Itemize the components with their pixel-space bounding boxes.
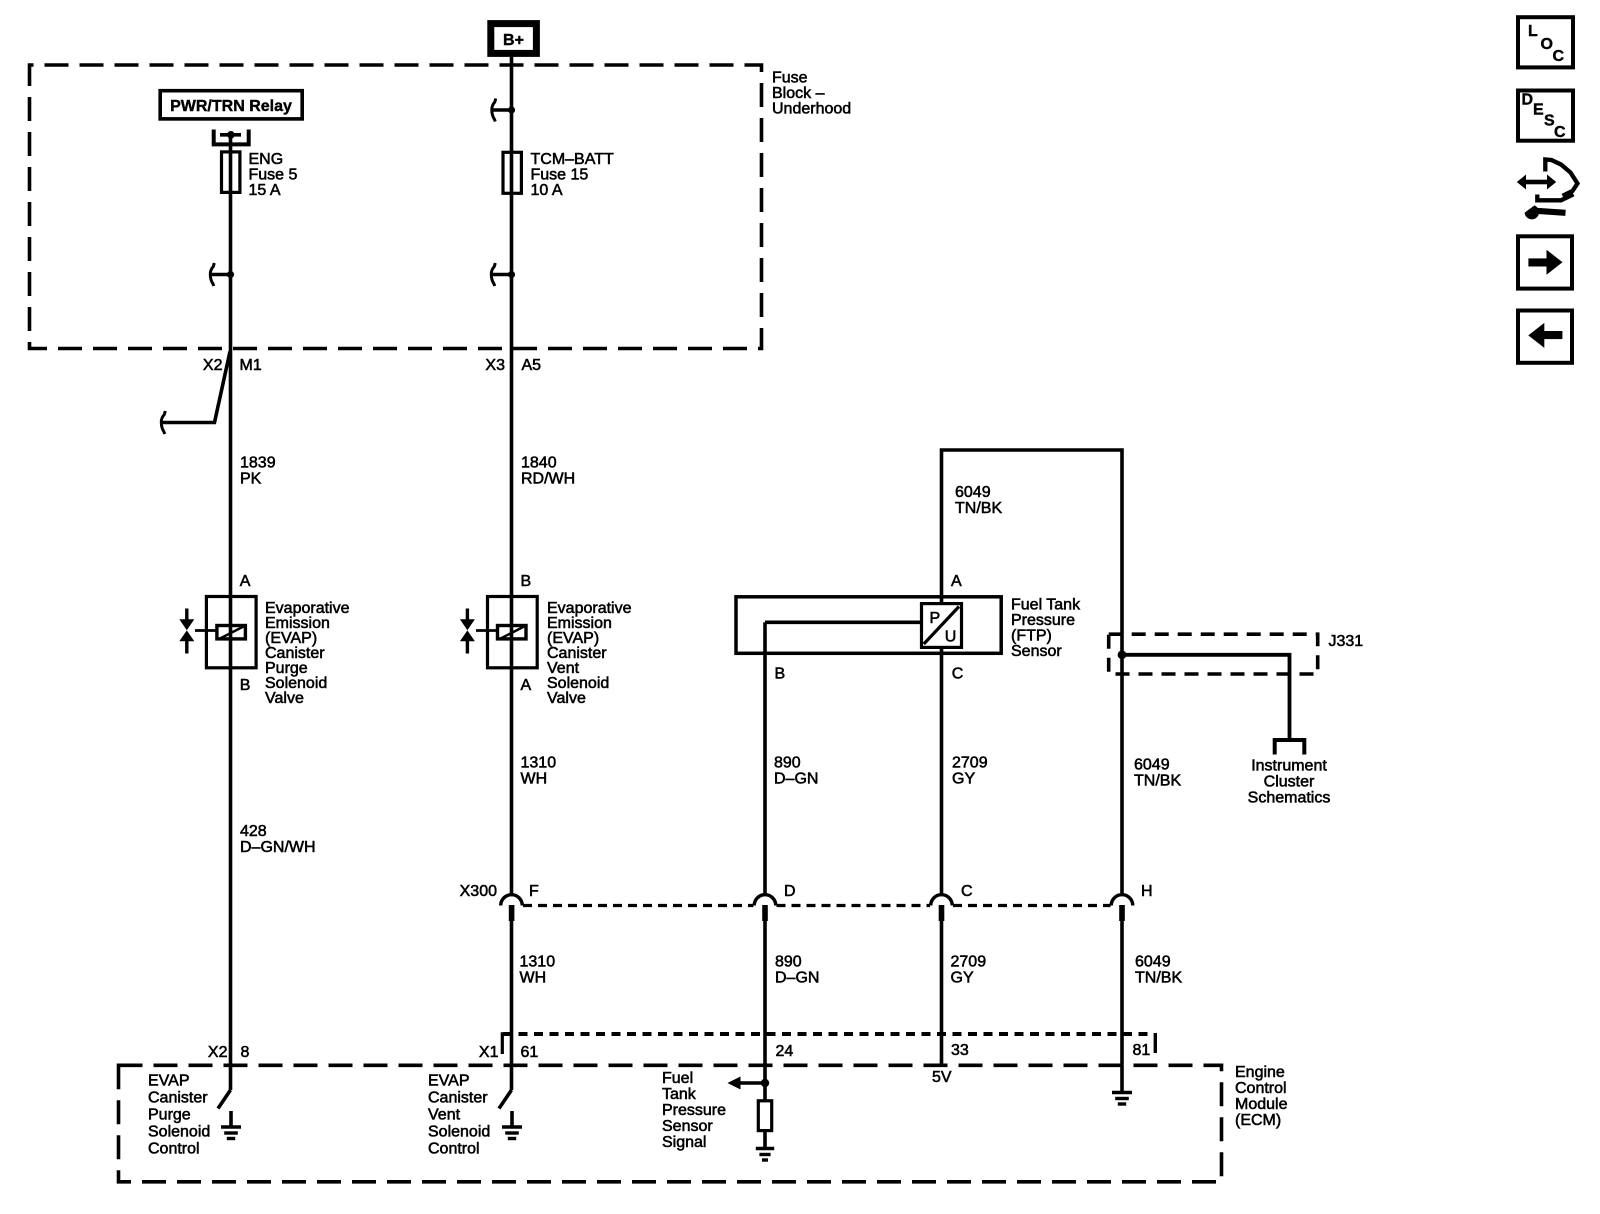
svg-text:TN/BK: TN/BK [1134,773,1181,790]
ECM purge driver switch [218,1090,231,1109]
X300 terminal D [754,883,795,921]
wire label 6049 TN/BK top [955,484,1002,517]
ground at pin 24 resistor [756,1149,774,1161]
FTP sensor label text [1011,597,1081,661]
inline connector X300 dashed line [523,904,1111,907]
svg-text:2709: 2709 [952,755,988,772]
purge solenoid label text [265,600,350,707]
ground at vent driver [502,1111,522,1139]
svg-text:X2: X2 [203,357,223,374]
purge solenoid valve arrow symbol [179,609,194,654]
svg-text:C: C [952,666,964,683]
svg-text:X300: X300 [460,883,497,900]
svg-text:Fuse: Fuse [772,70,808,87]
svg-text:TCM–BATT: TCM–BATT [531,151,614,168]
svg-text:RD/WH: RD/WH [521,471,575,488]
svg-text:EVAP: EVAP [148,1073,190,1090]
fuel tank pressure sensor signal label [662,1070,726,1151]
instrument cluster label [1248,758,1331,807]
wire: X300 H down to ECM 81 [1120,921,1124,1093]
svg-text:X3: X3 [485,357,505,374]
svg-text:6049: 6049 [1135,954,1171,971]
svg-text:PWR/TRN Relay: PWR/TRN Relay [170,98,292,115]
X1 pin labels [479,1042,1150,1061]
svg-text:D–GN/WH: D–GN/WH [240,839,316,856]
svg-text:E: E [1533,102,1544,119]
svg-text:Instrument: Instrument [1251,758,1327,775]
svg-text:PK: PK [240,471,262,488]
wire label 428 D-GN/WH [240,823,316,856]
ECM connector X1 dotted line [502,1033,1155,1054]
wire: X300 F down to ECM X1 61 [510,921,514,1091]
LOC navigation icon [1518,17,1573,67]
X300 terminal H [1111,883,1152,921]
ECM label [1235,1064,1288,1129]
wire label 2709 GY lower [951,954,987,987]
wrench diagnostic icon [1517,160,1578,220]
svg-text:Module: Module [1235,1096,1288,1113]
wire label 1310 WH upper [521,755,557,788]
wire: FTP A up and across to 6049 [942,450,1123,896]
svg-text:428: 428 [240,823,267,840]
splice package J331 dashed box [1109,633,1364,674]
svg-text:(FTP): (FTP) [1011,628,1052,645]
svg-text:P: P [930,610,941,627]
svg-text:1839: 1839 [240,455,276,472]
svg-text:B+: B+ [503,32,524,49]
svg-text:Valve: Valve [547,690,586,707]
svg-text:L: L [1528,23,1538,40]
vent solenoid label text [547,600,632,707]
svg-text:C: C [1553,48,1565,65]
svg-text:1840: 1840 [521,455,557,472]
svg-text:Cluster: Cluster [1264,774,1315,791]
fuel tank pressure FTP sensor [736,597,1001,655]
svg-text:Solenoid: Solenoid [148,1124,210,1141]
svg-text:GY: GY [952,771,975,788]
svg-text:EVAP: EVAP [428,1073,470,1090]
svg-text:Underhood: Underhood [772,101,851,118]
wire: FTP B down to X300 D [763,655,767,896]
engine control module ECM dashed box [119,1065,1222,1182]
wire branch jog to other circuit [161,352,230,435]
svg-text:890: 890 [775,954,802,971]
X2 pin 8 labels [208,1044,250,1061]
wire: FTP C down to X300 C [940,648,944,896]
wire: relay to ENG fuse [229,135,233,1090]
X300 terminal F [501,883,539,921]
wire label 6049 TN/BK lower [1135,954,1182,987]
svg-text:C: C [961,883,973,900]
svg-text:1310: 1310 [520,954,556,971]
node X3 A5 labels [485,357,541,374]
wire: X300 D down to ECM 24 [763,921,767,1101]
wire: resistor to ground [763,1131,767,1149]
svg-text:24: 24 [776,1043,794,1060]
svg-text:10 A: 10 A [531,182,563,199]
connector clip on ENG fuse output [210,263,234,286]
X300 terminal C [931,883,973,921]
svg-text:D: D [784,883,796,900]
fuse block label [772,70,851,118]
wire label 1839 PK [240,455,276,488]
svg-text:Fuel Tank: Fuel Tank [1011,597,1081,614]
svg-text:M1: M1 [240,357,262,374]
wire label 2709 GY upper [952,755,988,788]
svg-text:C: C [1554,124,1566,141]
wire label 1310 WH lower [520,954,556,987]
svg-text:WH: WH [521,771,548,788]
forward arrow navigation icon [1518,236,1572,288]
wire: B+ down to TCM fuse [510,57,514,896]
svg-text:Block –: Block – [772,85,825,102]
svg-text:33: 33 [951,1042,969,1059]
svg-text:Canister: Canister [428,1090,488,1107]
svg-text:A: A [521,677,532,694]
wire label 890 D-GN upper [774,755,818,788]
svg-text:Solenoid: Solenoid [428,1124,490,1141]
svg-text:Control: Control [1235,1080,1287,1097]
svg-text:Control: Control [148,1141,200,1158]
svg-text:A: A [240,573,251,590]
svg-text:1310: 1310 [521,755,557,772]
node X2 M1 labels [203,357,262,374]
svg-text:Pressure: Pressure [1011,612,1075,629]
svg-text:Fuse 5: Fuse 5 [249,167,298,184]
svg-text:D–GN: D–GN [774,771,818,788]
svg-text:B: B [521,573,532,590]
EVAP canister purge solenoid valve [195,573,256,694]
battery feed B+ terminal [491,24,537,54]
fuse TCM-BATT Fuse 15 10A [503,151,614,199]
svg-text:H: H [1141,883,1153,900]
svg-text:61: 61 [521,1044,539,1061]
svg-text:D–GN: D–GN [775,970,819,987]
svg-text:(ECM): (ECM) [1235,1112,1281,1129]
svg-text:TN/BK: TN/BK [955,500,1002,517]
svg-text:TN/BK: TN/BK [1135,970,1182,987]
svg-text:890: 890 [774,755,801,772]
svg-text:A: A [951,573,962,590]
wire label 890 D-GN lower [775,954,819,987]
vent solenoid valve arrow symbol [460,609,475,654]
splice junction node on 6049 [1118,650,1127,659]
EVAP canister vent solenoid control label [428,1073,490,1158]
instrument cluster connector bracket [1275,740,1305,755]
svg-text:5V: 5V [932,1069,952,1086]
svg-text:15 A: 15 A [249,182,281,199]
svg-text:Schematics: Schematics [1248,790,1331,807]
svg-text:X2: X2 [208,1044,228,1061]
wire: splice to instrument cluster [1122,655,1290,740]
svg-text:Pressure: Pressure [662,1102,726,1119]
svg-text:Engine: Engine [1235,1064,1285,1081]
svg-text:B: B [775,666,786,683]
signal arrow and junction at pin 24 [728,1077,770,1090]
ECM vent driver switch [499,1090,512,1109]
svg-text:F: F [529,883,539,900]
svg-text:8: 8 [241,1044,250,1061]
svg-text:Fuse 15: Fuse 15 [531,167,589,184]
svg-text:ENG: ENG [249,151,284,168]
connector clip on TCM-BATT feed [492,99,515,122]
connector clip on TCM fuse output [491,263,515,286]
svg-text:6049: 6049 [955,484,991,501]
svg-text:Signal: Signal [662,1134,706,1151]
svg-text:Valve: Valve [265,690,304,707]
svg-text:Tank: Tank [662,1086,697,1103]
wire label 1840 RD/WH [521,455,575,488]
svg-text:WH: WH [520,970,547,987]
svg-text:X1: X1 [479,1044,499,1061]
ground at purge driver [221,1111,241,1139]
svg-text:B: B [240,677,251,694]
svg-text:J331: J331 [1329,633,1364,650]
EVAP canister purge solenoid control label [148,1073,210,1158]
svg-text:Purge: Purge [148,1107,191,1124]
svg-text:GY: GY [951,970,974,987]
svg-text:O: O [1541,36,1553,53]
svg-text:A5: A5 [522,357,542,374]
svg-text:Sensor: Sensor [1011,643,1062,660]
EVAP canister vent solenoid valve [476,573,537,694]
relay output bracket [214,130,249,145]
fuse ENG Fuse 5 15A [222,151,298,199]
svg-text:Fuel: Fuel [662,1070,693,1087]
wire: X300 C down to ECM 33 [940,921,944,1065]
ground at ECM pin 81 [1112,1093,1132,1105]
svg-text:Vent: Vent [428,1107,461,1124]
svg-text:Sensor: Sensor [662,1118,713,1135]
svg-text:81: 81 [1133,1042,1151,1059]
fuse block underhood dashed box [30,65,762,349]
svg-text:6049: 6049 [1134,757,1170,774]
svg-text:U: U [945,629,957,646]
relay PWR/TRN box [160,91,302,119]
wire label 6049 TN/BK middle [1134,757,1181,790]
back arrow navigation icon [1518,311,1572,363]
svg-text:Control: Control [428,1141,480,1158]
svg-text:D: D [1522,92,1534,109]
svg-text:Canister: Canister [148,1090,208,1107]
internal resistor at pin 24 [758,1101,771,1131]
svg-text:2709: 2709 [951,954,987,971]
FTP pin letters A B C [775,573,964,683]
DESC navigation icon [1518,91,1573,142]
